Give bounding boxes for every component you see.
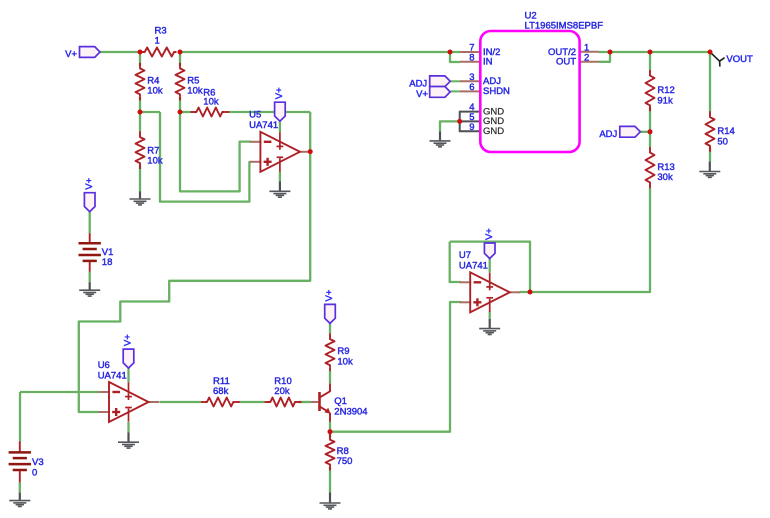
svg-text:Q1: Q1 — [334, 396, 347, 407]
svg-text:OUT: OUT — [556, 57, 576, 68]
svg-text:8: 8 — [469, 52, 474, 63]
svg-text:20k: 20k — [274, 386, 290, 397]
svg-text:U6: U6 — [98, 360, 110, 371]
svg-text:V+: V+ — [416, 89, 428, 100]
svg-text:6: 6 — [469, 82, 474, 93]
svg-text:10k: 10k — [203, 96, 219, 107]
svg-text:10k: 10k — [147, 86, 163, 97]
svg-text:IN: IN — [483, 57, 493, 68]
svg-text:UA741: UA741 — [459, 261, 488, 272]
svg-text:UA741: UA741 — [98, 370, 127, 381]
svg-text:50: 50 — [717, 136, 728, 147]
svg-text:GND: GND — [483, 126, 504, 137]
svg-text:750: 750 — [337, 456, 353, 467]
svg-text:68k: 68k — [213, 386, 229, 397]
svg-text:10k: 10k — [187, 86, 203, 97]
svg-text:9: 9 — [469, 122, 474, 133]
svg-text:V+: V+ — [324, 289, 335, 301]
svg-text:ADJ: ADJ — [409, 79, 427, 90]
svg-text:UA741: UA741 — [249, 120, 278, 131]
svg-text:U7: U7 — [459, 250, 471, 261]
svg-text:V+: V+ — [484, 228, 495, 240]
svg-text:2N3904: 2N3904 — [334, 406, 367, 417]
svg-text:V+: V+ — [65, 49, 77, 60]
svg-text:2: 2 — [584, 52, 589, 63]
svg-text:18: 18 — [102, 257, 113, 268]
svg-text:V+: V+ — [123, 334, 134, 346]
svg-text:U5: U5 — [249, 110, 261, 121]
svg-text:ADJ: ADJ — [599, 129, 617, 140]
svg-text:10k: 10k — [147, 156, 163, 167]
svg-text:30k: 30k — [657, 172, 673, 183]
svg-text:V+: V+ — [274, 87, 285, 99]
svg-text:LT1965IMS8EPBF: LT1965IMS8EPBF — [525, 20, 604, 31]
svg-text:1: 1 — [155, 36, 160, 47]
svg-text:V+: V+ — [84, 177, 95, 189]
svg-text:10k: 10k — [337, 356, 353, 367]
svg-text:SHDN: SHDN — [483, 86, 510, 97]
svg-text:0: 0 — [32, 468, 37, 479]
svg-text:91k: 91k — [657, 96, 673, 107]
svg-text:VOUT: VOUT — [726, 54, 753, 65]
